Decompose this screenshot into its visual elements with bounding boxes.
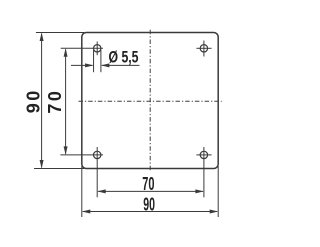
hole H3 bottom-left [94, 151, 101, 158]
label 90 bottom [143, 193, 155, 214]
diameter leader line right / text underline with arrow [101, 63, 140, 67]
centerline vertical (dash-dot) [149, 30, 151, 172]
label diameter 5,5 [109, 49, 139, 67]
dimension line 90 bottom [82, 210, 218, 214]
svg-text:Ø 5,5: Ø 5,5 [109, 49, 139, 67]
extension line bottom edge (for 90 dim) [34, 168, 84, 170]
label 70 bottom [142, 173, 154, 194]
diameter leader line left with arrow [71, 63, 94, 67]
plate outline (90x90 mounting plate) [82, 33, 218, 169]
hole H1 vertical centermark [96, 42, 98, 56]
dimension line 70 bottom [97, 189, 204, 193]
extension line bottom hole H3 center (for 70 dim, merges with H3 horizontal centermark) [60, 154, 103, 156]
extension line plate right edge down (for bottom 90 dim) [217, 166, 219, 217]
hole H2 horizontal centermark [196, 47, 211, 49]
hole H4 bottom-right [200, 151, 207, 158]
label 90 left (rotated) [23, 91, 43, 114]
dimension line 70 left [64, 48, 68, 155]
dimension line 90 left [40, 33, 44, 169]
extension line top edge (for 90 dim, merges with plate top edge) [36, 32, 84, 34]
diameter dim extension line left (hole H1 left edge) [93, 50, 95, 72]
extension line plate left edge down (for bottom 90 dim) [81, 166, 83, 217]
extension line top hole H1 center (for 70 dim, merges with H1 horizontal centermark) [61, 47, 103, 49]
hole H4 horizontal centermark [196, 154, 211, 156]
hole H2 vertical centermark [203, 41, 205, 57]
label 70 left (rotated) [45, 91, 65, 114]
hole H2 top-right [200, 45, 207, 52]
svg-text:70: 70 [142, 173, 154, 194]
svg-text:90: 90 [143, 193, 155, 214]
hole H1 top-left [94, 45, 101, 52]
extension line H4 down (for bottom 70 dim, merges with H4 vertical centermark) [203, 147, 205, 197]
extension line H3 down (for bottom 70 dim, merges with H3 vertical centermark) [96, 147, 98, 197]
diameter dim extension line right (hole H1 right edge) [100, 50, 102, 72]
centerline horizontal (dash-dot) [79, 100, 222, 102]
